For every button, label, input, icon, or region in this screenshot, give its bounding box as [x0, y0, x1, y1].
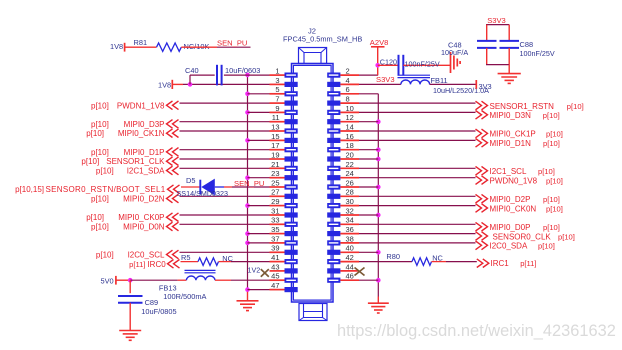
connector J2 pin 36 box — [327, 231, 359, 236]
wire PWDN1_1V8 to pin 7 — [180, 102, 270, 104]
svg-text:5V0: 5V0 — [101, 277, 114, 286]
port MIPI0_D0N (pin 33) — [91, 222, 178, 231]
junction pin 37 to GND rail — [245, 241, 250, 246]
wire pin 36 to port SENSOR0_CLK — [359, 233, 476, 235]
svg-text:MIPI0_CK1N: MIPI0_CK1N — [118, 129, 165, 138]
svg-text:p[10]: p[10] — [546, 204, 563, 213]
capacitor C48 — [448, 41, 497, 50]
svg-text:p[10]: p[10] — [543, 195, 560, 204]
port IRC1 (pin 42) — [477, 259, 537, 268]
wire pin 10 to port MIPI0_D3N — [359, 111, 476, 113]
svg-text:SEN_PU: SEN_PU — [234, 179, 264, 188]
connector J2 pin 45 box — [270, 278, 298, 283]
junction pin 47 to GND rail — [245, 287, 250, 292]
svg-text:10uF/0603: 10uF/0603 — [225, 66, 260, 75]
svg-text:39: 39 — [271, 244, 279, 253]
wire SENSOR1_CLK to pin 19 — [180, 158, 270, 160]
svg-text:29: 29 — [271, 197, 279, 206]
wire C40 riser — [190, 75, 215, 84]
junction 1V8 / C40 branch — [188, 82, 193, 87]
svg-text:PWDN1_1V8: PWDN1_1V8 — [117, 101, 165, 110]
connector J2 pin 32 box — [327, 212, 359, 217]
power flag 3V3 — [476, 80, 491, 91]
svg-text:p[10]: p[10] — [567, 102, 584, 111]
wire pin 35 to GND rail — [248, 233, 270, 235]
svg-text:I2C0_SDA: I2C0_SDA — [490, 242, 528, 251]
svg-text:SENSOR0_CLK: SENSOR0_CLK — [493, 232, 552, 241]
port MIPI0_CK1P (pin 14) — [476, 129, 563, 139]
svg-text:C40: C40 — [185, 66, 199, 75]
connector J2 pin 43 box — [270, 268, 298, 273]
svg-text:p[10]: p[10] — [91, 120, 109, 129]
power flag 1V8 (R81) — [110, 42, 157, 52]
svg-text:p[11]: p[11] — [520, 259, 536, 268]
svg-text:I2C0_SCL: I2C0_SCL — [128, 251, 165, 260]
svg-text:25: 25 — [271, 178, 279, 187]
svg-text:42: 42 — [346, 253, 354, 262]
svg-text:S3V3: S3V3 — [487, 16, 506, 25]
svg-text:SENSOR1_CLK: SENSOR1_CLK — [106, 157, 165, 166]
port SENSOR0_CLK (pin 36) — [476, 232, 575, 242]
svg-text:45: 45 — [271, 272, 279, 281]
wire pin 34 to port MIPI0_D0P — [359, 223, 476, 225]
svg-text:p[10]: p[10] — [558, 232, 575, 241]
wire pin 20 to GND rail — [359, 158, 378, 160]
port MIPI0_CK0N (pin 30) — [476, 204, 563, 214]
wire pin 29 to GND rail — [248, 205, 270, 207]
svg-text:43: 43 — [271, 262, 279, 271]
wire pin 18 to GND rail — [359, 149, 378, 151]
wire pin 9 to GND rail — [248, 111, 270, 113]
svg-text:26: 26 — [346, 178, 354, 187]
svg-text:p[10]: p[10] — [96, 167, 114, 176]
svg-text:18: 18 — [346, 141, 354, 150]
svg-text:17: 17 — [271, 141, 279, 150]
connector J2 pin 12 box — [327, 119, 359, 124]
svg-text:7: 7 — [275, 95, 279, 104]
wire to ground (C48/C88) — [508, 65, 510, 74]
wire pin 30 to port MIPI0_CK0N — [359, 205, 476, 207]
svg-text:6: 6 — [346, 85, 350, 94]
connector J2 pin 19 box — [270, 156, 298, 161]
svg-text:MIPI0_D1N: MIPI0_D1N — [490, 139, 532, 148]
connector J2 pin 5 box — [270, 91, 298, 96]
wire port to D5 — [181, 186, 200, 188]
svg-text:100R/500mA: 100R/500mA — [163, 292, 206, 301]
svg-text:27: 27 — [271, 188, 279, 197]
wire MIPI0_CK1N to pin 13 — [180, 130, 270, 132]
svg-text:35: 35 — [271, 225, 279, 234]
wire I2C1_SDA to pin 21 — [180, 167, 270, 169]
svg-text:28: 28 — [346, 188, 354, 197]
svg-text:16: 16 — [346, 132, 354, 141]
port I2C1_SDA (pin 21) — [96, 166, 179, 175]
wire pin 23 to GND rail — [248, 177, 270, 179]
port MIPI0_D3N (pin 10) — [476, 111, 560, 121]
svg-text:p[10]: p[10] — [546, 130, 563, 139]
svg-text:MIPI0_D3N: MIPI0_D3N — [490, 111, 532, 120]
svg-text:I2C1_SCL: I2C1_SCL — [490, 167, 527, 176]
svg-text:p[10]: p[10] — [543, 111, 560, 120]
connector J2 pin 22 box — [327, 166, 359, 171]
port SENSOR1_CLK (pin 19) — [81, 157, 178, 166]
connector J2 pin 37 box — [270, 240, 298, 245]
junction pin 5 to GND rail — [245, 92, 250, 97]
svg-text:SS14/SMD0323: SS14/SMD0323 — [177, 189, 229, 198]
svg-text:MIPI0_D2N: MIPI0_D2N — [123, 195, 165, 204]
wire R5 to pin 41 — [219, 261, 270, 263]
ground rail left (net GND) — [247, 75, 249, 301]
svg-text:C88: C88 — [520, 40, 534, 49]
wire pin 6 to GND rail — [359, 93, 378, 95]
port MIPI0_D2N (pin 27) — [91, 194, 178, 203]
wire FB11 to 3V3 — [430, 83, 477, 85]
port PWDN0_1V8 (pin 24) — [476, 176, 563, 186]
power flag 1V8 (pin 3) — [158, 80, 183, 90]
wire pin 32 to GND rail — [359, 214, 378, 216]
port MIPI0_D1N (pin 16) — [476, 139, 560, 149]
svg-text:20: 20 — [346, 150, 354, 159]
svg-text:PWDN0_1V8: PWDN0_1V8 — [490, 176, 538, 185]
svg-text:15: 15 — [271, 132, 279, 141]
wire R80 to IRC1 — [432, 261, 477, 263]
svg-text:10: 10 — [346, 104, 354, 113]
svg-text:100uF/A: 100uF/A — [441, 48, 468, 57]
svg-text:p[10]: p[10] — [81, 157, 99, 166]
wire C120 to ground — [403, 64, 450, 66]
svg-text:33: 33 — [271, 216, 279, 225]
svg-text:IRC0: IRC0 — [147, 260, 166, 269]
wire pin 40 to GND rail — [359, 251, 378, 253]
wire pin 15 to GND rail — [248, 139, 270, 141]
power flag S3V3 (C48/C88) — [486, 16, 509, 25]
connector J2 reference designator — [283, 27, 362, 44]
svg-text:p[10]: p[10] — [546, 176, 563, 185]
wire bottom bar C48/C88 — [486, 64, 509, 66]
connector J2 pin 30 box — [327, 203, 359, 208]
svg-text:https://blog.csdn.net/weixin_4: https://blog.csdn.net/weixin_42361632 — [337, 322, 616, 340]
connector J2 pin 40 box — [327, 250, 359, 255]
svg-text:R5: R5 — [181, 253, 190, 262]
svg-text:MIPI0_D1P: MIPI0_D1P — [124, 148, 165, 157]
svg-text:p[10]: p[10] — [86, 213, 104, 222]
wire S3V3 to C48 — [486, 25, 488, 40]
wire pin 47 to GND rail — [248, 289, 270, 291]
svg-text:MIPI0_D3P: MIPI0_D3P — [124, 120, 165, 129]
svg-text:14: 14 — [346, 122, 354, 131]
svg-text:MIPI0_CK1P: MIPI0_CK1P — [490, 130, 536, 139]
svg-text:p[10,15]: p[10,15] — [15, 185, 44, 194]
connector J2 pin 18 box — [327, 147, 359, 152]
svg-text:1V8: 1V8 — [110, 42, 123, 51]
connector J2 top tab — [299, 48, 327, 64]
connector J2 pin 9 box — [270, 110, 298, 115]
wire pin 14 to port MIPI0_CK1P — [359, 130, 476, 132]
svg-text:R80: R80 — [386, 252, 400, 261]
svg-text:41: 41 — [271, 253, 279, 262]
port MIPI0_CK0P (pin 31) — [86, 213, 178, 222]
wire pin 16 to port MIPI0_D1N — [359, 139, 476, 141]
wire C88 to gnd bar — [508, 48, 510, 65]
junction pin 46 to GND rail — [376, 278, 381, 283]
svg-text:100nF/25V: 100nF/25V — [520, 49, 555, 58]
svg-text:p[10]: p[10] — [543, 139, 560, 148]
connector J2 pin 47 box — [270, 287, 298, 292]
port MIPI0_D0P (pin 34) — [476, 222, 560, 232]
connector J2 pin 7 box — [270, 101, 298, 106]
connector J2 pin 31 box — [270, 212, 298, 217]
svg-text:3: 3 — [275, 76, 279, 85]
wire MIPI0_D0N to pin 33 — [180, 223, 270, 225]
svg-text:FPC45_0.5mm_SM_HB: FPC45_0.5mm_SM_HB — [283, 35, 362, 44]
wire R81 to SEN_PU — [181, 46, 250, 48]
svg-text:C120: C120 — [380, 57, 397, 66]
svg-text:p[10]: p[10] — [96, 251, 114, 260]
wire C89 to ground — [129, 303, 131, 331]
port I2C1_SCL (pin 22) — [476, 166, 555, 176]
connector J2 pin 15 box — [270, 138, 298, 143]
wire FB13 to pin 45 — [215, 279, 270, 281]
ground symbol right rail — [368, 303, 389, 313]
svg-text:37: 37 — [271, 234, 279, 243]
connector J2 pin 29 box — [270, 203, 298, 208]
ground rail right (net GND) — [377, 94, 379, 303]
svg-text:19: 19 — [271, 150, 279, 159]
junction pin 26 to GND rail — [376, 185, 381, 190]
svg-text:1V8: 1V8 — [158, 81, 171, 90]
svg-text:p[10]: p[10] — [91, 223, 109, 232]
svg-text:9: 9 — [275, 104, 279, 113]
svg-text:MIPI0_D0P: MIPI0_D0P — [490, 223, 531, 232]
port I2C0_SCL (pin 39) — [96, 250, 179, 259]
connector J2 pin 39 box — [270, 250, 298, 255]
junction pin 20 to GND rail — [376, 157, 381, 162]
svg-text:MIPI0_CK0N: MIPI0_CK0N — [490, 204, 537, 213]
wire pin 12 to GND rail — [359, 121, 378, 123]
connector J2 pin 26 box — [327, 184, 359, 189]
connector J2 pin 2 box — [327, 73, 359, 78]
wire pin 46 to GND rail — [359, 279, 378, 281]
junction pin 29 to GND rail — [245, 203, 250, 208]
connector J2 body — [292, 64, 334, 303]
svg-text:24: 24 — [346, 169, 354, 178]
junction A2V8 / C120 — [375, 63, 380, 68]
no-connect X pin 44 — [355, 268, 365, 276]
svg-text:30: 30 — [346, 197, 354, 206]
connector J2 pin 6 box — [327, 91, 359, 96]
connector J2 pin 8 box — [327, 101, 359, 106]
power flag A2V8 (pin 2) — [370, 38, 389, 75]
port MIPI0_D2P (pin 28) — [476, 194, 560, 204]
svg-text:5: 5 — [275, 85, 279, 94]
resistor R5 — [181, 253, 219, 265]
connector J2 pin 20 box — [327, 156, 359, 161]
svg-text:p[10]: p[10] — [543, 223, 560, 232]
wire pin 38 to port I2C0_SDA — [359, 242, 476, 244]
wire pin 26 to GND rail — [359, 186, 378, 188]
connector J2 pin 35 box — [270, 231, 298, 236]
svg-text:p[10]: p[10] — [86, 129, 104, 138]
port I2C0_SDA (pin 38) — [476, 241, 555, 251]
ferrite bead FB11 — [398, 75, 448, 85]
connector J2 pin 13 box — [270, 128, 298, 133]
svg-text:A2V8: A2V8 — [370, 38, 389, 47]
junction pin 23 to GND rail — [245, 175, 250, 180]
svg-text:34: 34 — [346, 216, 354, 225]
connector J2 pin 1 box — [270, 73, 298, 78]
wire pin 42 to R80 — [359, 261, 412, 263]
junction pin 32 to GND rail — [376, 213, 381, 218]
connector J2 pin 16 box — [327, 138, 359, 143]
svg-text:36: 36 — [346, 225, 354, 234]
diode D5 — [186, 176, 215, 195]
svg-text:IRC1: IRC1 — [491, 259, 510, 268]
svg-text:40: 40 — [346, 244, 354, 253]
svg-text:p[10]: p[10] — [91, 148, 109, 157]
wire A2V8 to C120 — [378, 64, 399, 66]
svg-text:11: 11 — [272, 113, 280, 122]
svg-text:R81: R81 — [134, 38, 148, 47]
connector J2 pin 21 box — [270, 166, 298, 171]
port SENSOR0_RSTN/BOOT_SEL1 (pin 25) — [15, 185, 179, 194]
svg-text:SENSOR0_RSTN/BOOT_SEL1: SENSOR0_RSTN/BOOT_SEL1 — [46, 185, 166, 194]
junction pin 9 to GND rail — [245, 110, 250, 115]
svg-text:SENSOR1_RSTN: SENSOR1_RSTN — [490, 102, 555, 111]
svg-text:38: 38 — [346, 234, 354, 243]
svg-text:SEN_PU: SEN_PU — [217, 39, 247, 48]
connector J2 pin 17 box — [270, 147, 298, 152]
wire pin 2 to A2V8 — [359, 74, 378, 76]
svg-text:10uF/0805: 10uF/0805 — [141, 307, 176, 316]
resistor R80 — [386, 252, 431, 266]
wire MIPI0_D3P to pin 11 — [180, 121, 270, 123]
junction pin 18 to GND rail — [376, 147, 381, 152]
capacitor C120 — [380, 55, 404, 76]
wire 1V8 to pin 3 — [183, 83, 270, 85]
svg-text:1: 1 — [275, 67, 279, 76]
port MIPI0_CK1N (pin 13) — [86, 129, 178, 138]
capacitor C88 — [500, 40, 534, 49]
connector J2 pin 11 box — [270, 119, 298, 124]
svg-text:p[10]: p[10] — [538, 167, 555, 176]
port MIPI0_D1P (pin 17) — [91, 148, 178, 157]
svg-text:p[11]: p[11] — [129, 260, 145, 269]
connector J2 pin 41 box — [270, 259, 298, 264]
connector J2 pin 38 box — [327, 240, 359, 245]
wire IRC0 to R5 — [181, 261, 199, 263]
junction pin 40 to GND rail — [376, 250, 381, 255]
ground (C48/C88) — [498, 74, 521, 84]
connector J2 pin 27 box — [270, 194, 298, 199]
wire pin 28 to port MIPI0_D2P — [359, 195, 476, 197]
svg-text:100nF/25V: 100nF/25V — [405, 60, 440, 69]
connector J2 pin 33 box — [270, 222, 298, 227]
svg-text:3V3: 3V3 — [479, 82, 492, 91]
connector J2 pin 25 box — [270, 184, 298, 189]
wire pin 24 to port PWDN0_1V8 — [359, 177, 476, 179]
svg-text:MIPI0_D0N: MIPI0_D0N — [123, 223, 165, 232]
port IRC0 (pin 41) — [129, 260, 179, 269]
connector J2 pin 34 box — [327, 222, 359, 227]
wire pin 4 to FB11 — [359, 83, 401, 85]
svg-text:22: 22 — [346, 160, 354, 169]
connector J2 pin 42 box — [327, 259, 359, 264]
power flag 5V0 — [101, 276, 129, 286]
wire 5V0 to FB13 — [130, 279, 186, 281]
ground (C89) — [119, 331, 141, 341]
wire C89 riser — [129, 280, 131, 293]
junction 5V0 / C89 — [128, 278, 133, 283]
svg-text:12: 12 — [346, 113, 354, 122]
wire D5 to pin 25 — [215, 186, 270, 188]
wire pin 5 to GND rail — [248, 93, 270, 95]
port SENSOR1_RSTN (pin 8) — [476, 101, 584, 111]
connector J2 pin 46 box — [327, 278, 359, 283]
junction pin 1 to GND rail — [245, 73, 250, 78]
connector J2 pin 44 box — [327, 268, 359, 273]
svg-text:47: 47 — [271, 281, 279, 290]
port PWDN1_1V8 (pin 7) — [91, 101, 178, 110]
svg-text:13: 13 — [271, 122, 279, 131]
wire MIPI0_CK0P to pin 31 — [180, 214, 270, 216]
ground symbol left rail — [237, 301, 259, 311]
wire MIPI0_D1P to pin 17 — [180, 149, 270, 151]
wire pin 22 to port I2C1_SCL — [359, 167, 476, 169]
connector J2 pin 28 box — [327, 194, 359, 199]
connector J2 pin 24 box — [327, 175, 359, 180]
svg-text:31: 31 — [271, 206, 279, 215]
no-connect X pin 43 — [261, 269, 269, 277]
svg-text:D5: D5 — [186, 176, 195, 185]
resistor R81 — [134, 38, 182, 51]
wire S3V3 to C88 — [508, 25, 510, 40]
connector J2 pin 10 box — [327, 110, 359, 115]
wire C48 to gnd bar — [486, 48, 488, 65]
svg-text:8: 8 — [346, 95, 350, 104]
svg-text:S3V3: S3V3 — [376, 75, 395, 84]
svg-text:21: 21 — [271, 160, 279, 169]
ferrite bead FB13 — [159, 270, 216, 292]
connector J2 pin 4 box — [327, 82, 359, 87]
junction pin 35 to GND rail — [245, 231, 250, 236]
connector J2 bottom tab — [299, 304, 327, 321]
svg-text:p[10]: p[10] — [538, 242, 555, 251]
wire pin 37 to GND rail — [248, 242, 270, 244]
svg-text:2: 2 — [346, 67, 350, 76]
junction pin 12 to GND rail — [376, 119, 381, 124]
connector J2 pin 23 box — [270, 175, 298, 180]
svg-text:44: 44 — [346, 262, 354, 271]
ground (C120) — [451, 52, 461, 73]
capacitor C40 — [185, 65, 222, 86]
wire I2C0_SCL to pin 39 — [180, 251, 270, 253]
wire C40 to pin 1 — [224, 74, 270, 76]
connector J2 pin 3 box — [270, 82, 298, 87]
junction pin 15 to GND rail — [245, 138, 250, 143]
capacitor C89 — [118, 296, 158, 307]
svg-text:1V2: 1V2 — [248, 265, 261, 274]
svg-text:4: 4 — [346, 76, 350, 85]
svg-text:32: 32 — [346, 206, 354, 215]
svg-text:I2C1_SDA: I2C1_SDA — [127, 167, 165, 176]
svg-text:46: 46 — [346, 272, 354, 281]
wire MIPI0_D2N to pin 27 — [180, 195, 270, 197]
svg-text:p[10]: p[10] — [91, 195, 109, 204]
svg-text:23: 23 — [271, 169, 279, 178]
wire pin 8 to port SENSOR1_RSTN — [359, 102, 476, 104]
port MIPI0_D3P (pin 11) — [91, 120, 178, 129]
svg-text:MIPI0_D2P: MIPI0_D2P — [490, 195, 531, 204]
